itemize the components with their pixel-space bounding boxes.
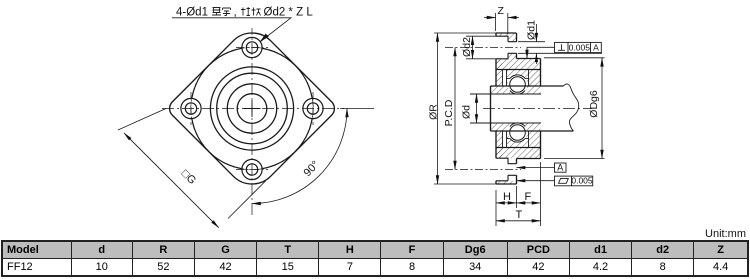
square flange outline (rotated square, rounded corners) xyxy=(170,33,335,184)
inner ring sleeve outline xyxy=(491,86,574,131)
note CJK glyph 4 xyxy=(252,8,261,16)
bottom bolt hole centerline xyxy=(236,169,268,171)
right bolt hole centerline xyxy=(312,92,314,125)
square G extension line upper xyxy=(118,109,166,131)
unit label xyxy=(705,228,746,240)
hatch: bearing block top xyxy=(507,70,541,87)
note CJK glyph 3 xyxy=(241,7,250,16)
bolt hole bottom: counterbore xyxy=(242,159,262,179)
outer race arc top xyxy=(510,75,525,79)
svg-text:Ød: Ød xyxy=(461,105,473,119)
hatch: flange web top left xyxy=(496,59,503,86)
housing step circle xyxy=(210,67,293,150)
svg-text:ØDg6: ØDg6 xyxy=(588,90,600,118)
dim PCD line xyxy=(454,48,456,170)
bolt hole bottom: through hole xyxy=(246,164,257,175)
dim OR extension bottom xyxy=(434,183,496,185)
outer ring bore edges top xyxy=(507,70,529,87)
leader arrow to top bolt hole xyxy=(260,34,269,43)
left bolt hole centerline xyxy=(190,92,192,125)
flange right face xyxy=(516,33,518,184)
flatness frame xyxy=(555,176,593,186)
dim Od1 extensions xyxy=(518,42,602,54)
dim Z extension lines xyxy=(496,13,508,34)
svg-text:A: A xyxy=(557,163,563,173)
svg-text:ØR: ØR xyxy=(428,104,440,120)
tolerance frame perpendicularity xyxy=(555,42,602,52)
datum A leader xyxy=(517,167,555,169)
svg-text:A: A xyxy=(593,42,599,52)
dim OR extension top xyxy=(434,32,496,34)
bearing outer ring faces xyxy=(503,70,507,148)
barrel outline top xyxy=(496,59,541,87)
bolt hole top: through hole xyxy=(246,42,257,53)
dim F line xyxy=(517,202,541,204)
inner sleeve circle xyxy=(227,84,276,133)
bolt hole left: counterbore xyxy=(181,98,201,118)
bottom bolt hole centerline (section) xyxy=(445,169,521,171)
outer race arc bottom xyxy=(510,139,525,143)
bolt circle (PCD, dash-dot) xyxy=(191,47,313,169)
datum A frame xyxy=(555,163,567,172)
square G extension line lower (edge extension) xyxy=(228,181,266,219)
shaft break line xyxy=(564,84,579,131)
inscribed boss circle xyxy=(191,48,313,170)
svg-text:Z: Z xyxy=(498,5,505,17)
dim T line xyxy=(496,220,541,222)
dimension table xyxy=(1,240,749,277)
svg-text:F: F xyxy=(525,191,532,203)
bore lines xyxy=(470,94,541,123)
flange outline left face xyxy=(495,33,497,184)
bolt hole right: through hole xyxy=(307,103,318,114)
ball bottom xyxy=(510,125,526,141)
ball groove white top xyxy=(508,75,528,95)
inner race arc bottom xyxy=(510,123,525,127)
through hole bottom xyxy=(508,164,517,176)
dim OR line xyxy=(437,33,439,184)
inner race arc top xyxy=(510,91,525,95)
hatch: barrel band top xyxy=(496,59,541,70)
bore circle xyxy=(237,94,267,124)
svg-text:4-Ød1: 4-Ød1 xyxy=(176,7,208,19)
svg-text:Ød2: Ød2 xyxy=(461,37,473,57)
dim Od2 line xyxy=(472,36,474,59)
outer ring bore edges bottom xyxy=(507,131,529,148)
bolt hole left: through hole xyxy=(185,103,196,114)
dim Od line xyxy=(476,94,478,123)
svg-text:□G: □G xyxy=(179,168,198,187)
hatch: flange bottom sliver xyxy=(496,181,517,185)
90 deg dimension arc xyxy=(252,109,347,204)
svg-text:Ød2 * Z L: Ød2 * Z L xyxy=(264,7,314,19)
flange top and bottom edges xyxy=(496,33,517,184)
vertical centerline xyxy=(251,28,253,218)
dim Od1 line + outside arrows xyxy=(535,24,537,42)
ball groove white bottom xyxy=(508,123,528,143)
svg-text:Ød1: Ød1 xyxy=(526,20,538,40)
top bolt hole centerline xyxy=(236,47,268,49)
through hole top xyxy=(508,42,517,54)
horizontal centerline xyxy=(162,108,344,110)
dim ODg6 extensions xyxy=(544,58,605,159)
flatness leader xyxy=(517,180,555,182)
svg-text:0.005: 0.005 xyxy=(569,42,591,52)
note CJK glyph 1 xyxy=(212,8,221,16)
svg-text:P.C.D: P.C.D xyxy=(443,99,455,126)
hatch: barrel band bottom xyxy=(496,148,541,159)
bolt hole right: counterbore xyxy=(303,98,323,118)
dim ODg6 line xyxy=(601,58,603,159)
bolt hole top: counterbore xyxy=(242,37,262,57)
svg-text:0.005: 0.005 xyxy=(571,176,593,186)
svg-text:,: , xyxy=(234,7,237,19)
dim Z arrows xyxy=(484,17,496,19)
outer ring circle xyxy=(217,73,288,144)
90 deg horizontal extension xyxy=(340,108,374,110)
hatch: inner ring band bottom xyxy=(491,123,541,131)
note CJK glyph 2 xyxy=(223,8,231,16)
counterbore top xyxy=(496,36,508,59)
hatch: above through hole top xyxy=(508,36,517,42)
center cross mark xyxy=(244,100,261,117)
leader note underline xyxy=(172,18,291,42)
hatch: below through hole top xyxy=(508,53,517,59)
hatch: bearing block bottom xyxy=(507,131,541,148)
hatch: inner ring band top xyxy=(491,86,541,94)
hatch: flange web bottom left xyxy=(496,131,503,158)
tolerance frame leader xyxy=(527,47,555,58)
barrel outline bottom xyxy=(496,131,541,159)
dim Od2 extension xyxy=(466,36,496,59)
top bolt hole centerline (section) xyxy=(445,47,521,49)
square G dimension line xyxy=(124,133,219,228)
dim H line xyxy=(496,202,517,204)
section centerline xyxy=(483,108,592,110)
ball top xyxy=(510,77,526,93)
hatch: flange top sliver xyxy=(496,33,517,36)
svg-text:H: H xyxy=(503,191,511,203)
svg-text:T: T xyxy=(516,209,523,221)
dim H F T extension lines xyxy=(496,162,541,226)
counterbore bottom xyxy=(496,158,508,181)
